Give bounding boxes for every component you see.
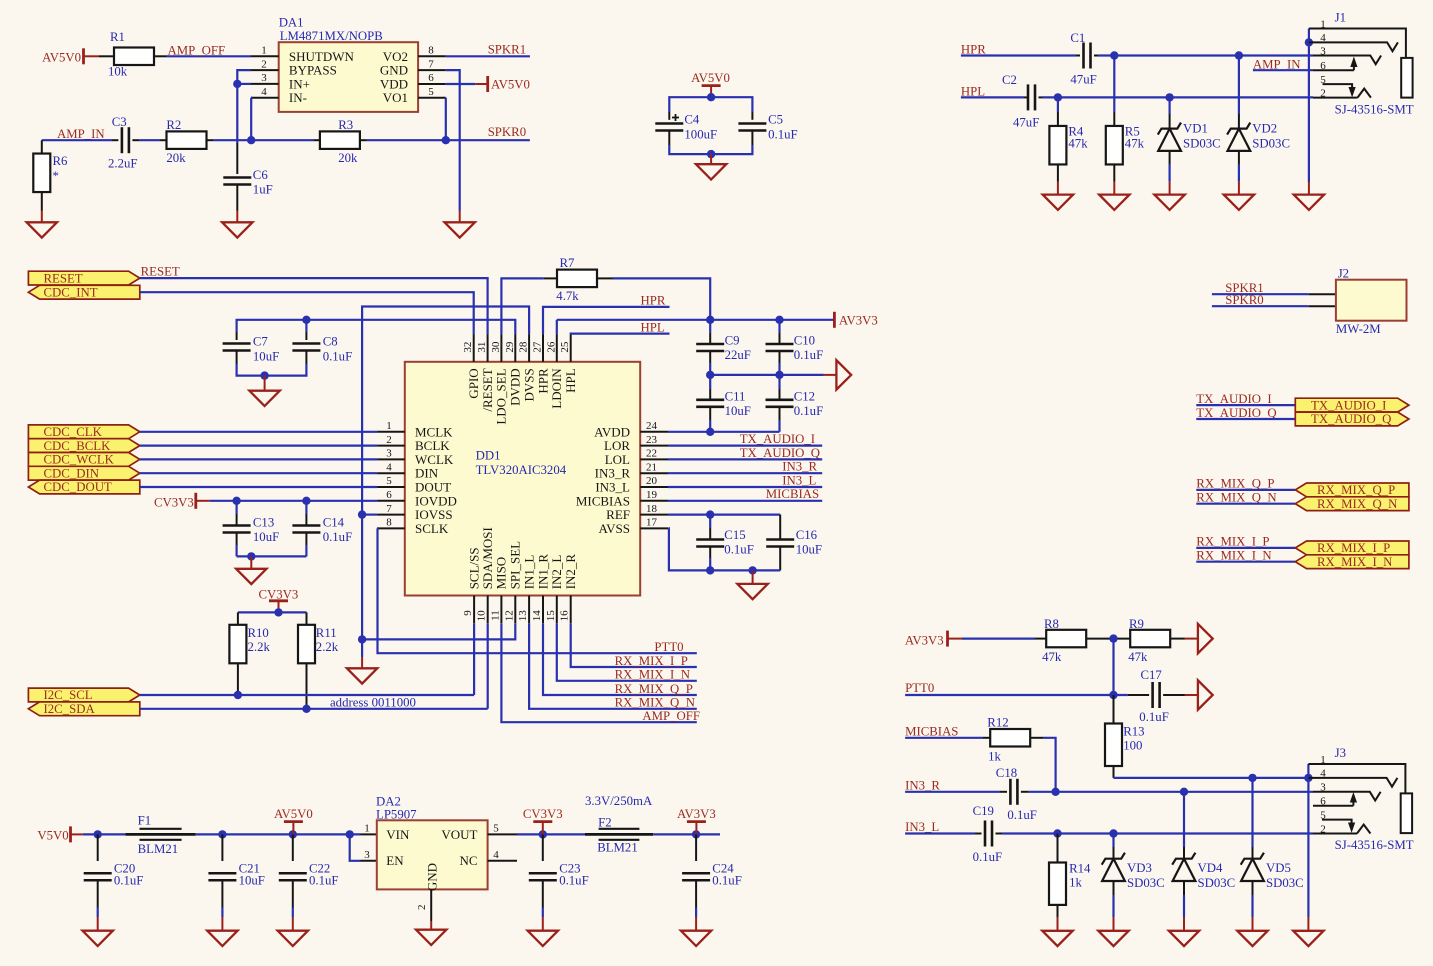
svg-text:WCLK: WCLK bbox=[415, 452, 454, 467]
wire MICBIAS bbox=[668, 500, 822, 502]
wire I2C_SCL bbox=[140, 694, 474, 696]
svg-text:R6: R6 bbox=[53, 154, 69, 168]
svg-text:LP5907: LP5907 bbox=[376, 807, 417, 821]
node bbox=[706, 316, 714, 324]
ground bbox=[347, 668, 377, 683]
port RX_MIX_Q_P bbox=[1295, 483, 1409, 497]
resistor R1 bbox=[114, 48, 154, 66]
svg-text:TX_AUDIO_Q: TX_AUDIO_Q bbox=[1196, 406, 1277, 420]
svg-text:BLM21: BLM21 bbox=[138, 842, 179, 856]
node bbox=[692, 830, 700, 838]
IC DA1 LM4871MX/NOPB bbox=[279, 42, 418, 112]
pin 16 IN2_R bbox=[570, 596, 572, 624]
ferrite bead F1 BLM21 bbox=[125, 833, 195, 836]
wire bbox=[83, 833, 125, 835]
svg-text:4: 4 bbox=[1320, 32, 1326, 44]
wire HPL bbox=[961, 96, 1024, 98]
svg-text:4: 4 bbox=[261, 86, 267, 98]
svg-text:J3: J3 bbox=[1335, 746, 1346, 760]
wire MISO to AMP_OFF bbox=[501, 623, 696, 722]
wire DVSS to ground bus bbox=[362, 307, 529, 658]
ground bbox=[1154, 195, 1184, 210]
wire bbox=[292, 908, 294, 918]
ground bbox=[1169, 931, 1199, 946]
svg-text:AMP_IN: AMP_IN bbox=[57, 127, 105, 141]
svg-text:C1: C1 bbox=[1070, 31, 1085, 45]
svg-text:J1: J1 bbox=[1335, 11, 1346, 25]
port TX_AUDIO_Q bbox=[1295, 412, 1409, 426]
ground bbox=[416, 930, 446, 945]
svg-text:10uF: 10uF bbox=[253, 530, 279, 544]
ferrite bead F2 BLM21 bbox=[585, 833, 653, 836]
wire IN3_L bbox=[668, 486, 822, 488]
svg-text:C8: C8 bbox=[323, 335, 338, 349]
wire bbox=[1002, 832, 1313, 834]
wire R7 to AV3V3 bbox=[613, 278, 710, 319]
node bbox=[94, 830, 102, 838]
pin 19 MICBIAS bbox=[640, 500, 668, 502]
wire bbox=[237, 555, 307, 557]
node R2/R3/IN- junction bbox=[247, 136, 255, 144]
pin 2 GND bbox=[430, 889, 432, 921]
pin 8 bbox=[418, 55, 446, 57]
svg-text:VD1: VD1 bbox=[1183, 122, 1208, 136]
node bbox=[748, 566, 756, 574]
port CDC_WCLK bbox=[28, 453, 139, 467]
svg-text:1: 1 bbox=[386, 420, 392, 432]
svg-text:SD03C: SD03C bbox=[1266, 876, 1304, 890]
svg-text:RX_MIX_Q_P: RX_MIX_Q_P bbox=[615, 682, 693, 696]
svg-text:SD03C: SD03C bbox=[1127, 876, 1165, 890]
svg-text:C17: C17 bbox=[1141, 668, 1163, 682]
node bbox=[260, 371, 268, 379]
svg-text:C4: C4 bbox=[684, 113, 700, 127]
port CDC_DOUT bbox=[28, 480, 139, 494]
svg-text:RX_MIX_Q_N: RX_MIX_Q_N bbox=[1196, 491, 1276, 505]
ground bbox=[207, 931, 237, 946]
svg-text:0.1uF: 0.1uF bbox=[559, 874, 589, 888]
svg-text:4: 4 bbox=[493, 849, 499, 861]
svg-text:1k: 1k bbox=[1069, 876, 1082, 890]
node bbox=[775, 316, 783, 324]
svg-text:R7: R7 bbox=[560, 256, 576, 270]
wire bbox=[1185, 694, 1198, 696]
svg-text:SPKR0: SPKR0 bbox=[1225, 293, 1263, 307]
wire bbox=[221, 908, 223, 918]
pin 4 bbox=[1308, 778, 1397, 787]
node bbox=[1305, 38, 1313, 46]
svg-text:3: 3 bbox=[1320, 45, 1326, 57]
ground bbox=[249, 391, 279, 406]
capacitor C8 bbox=[305, 320, 307, 332]
wire GND pin7 to ground bbox=[446, 70, 460, 210]
svg-text:R8: R8 bbox=[1044, 617, 1059, 631]
svg-text:22uF: 22uF bbox=[725, 348, 751, 362]
pin 6 bbox=[418, 83, 446, 85]
wire PTT0 bbox=[905, 694, 1128, 696]
svg-text:17: 17 bbox=[646, 517, 658, 529]
wire CDC_DIN bbox=[140, 472, 377, 474]
node bbox=[358, 510, 366, 518]
wire bbox=[1196, 561, 1295, 563]
pin 12 SPI_SEL bbox=[514, 596, 516, 624]
wire DVDD rail bbox=[237, 320, 516, 334]
pin 6 IOVDD bbox=[377, 500, 405, 502]
svg-text:AV3V3: AV3V3 bbox=[905, 633, 944, 647]
svg-text:1: 1 bbox=[1320, 18, 1326, 30]
wire AVDD rail bbox=[668, 431, 780, 433]
pin 20 IN3_L bbox=[640, 486, 668, 488]
wire IN- bbox=[250, 98, 252, 141]
capacitor C13 bbox=[236, 501, 238, 514]
wire IOVSS bbox=[362, 513, 377, 515]
wire SPKR0 bbox=[1212, 305, 1309, 307]
svg-text:7: 7 bbox=[386, 503, 392, 515]
wire bbox=[517, 833, 585, 835]
wire bbox=[213, 139, 313, 141]
node bbox=[1304, 774, 1312, 782]
capacitor C16 bbox=[779, 515, 781, 540]
svg-text:DVDD: DVDD bbox=[508, 368, 523, 406]
pin 31 /RESET bbox=[487, 334, 489, 362]
pin 17 AVSS bbox=[640, 527, 668, 529]
svg-text:47k: 47k bbox=[1125, 136, 1145, 150]
pin 10 SDA/MOSI bbox=[487, 596, 489, 624]
wire bbox=[1196, 404, 1295, 406]
svg-text:IN3_L: IN3_L bbox=[595, 480, 630, 495]
wire REF rail bbox=[668, 513, 780, 515]
svg-text:C18: C18 bbox=[996, 766, 1017, 780]
svg-text:CDC_DOUT: CDC_DOUT bbox=[44, 480, 112, 494]
node IN+ junction bbox=[233, 80, 241, 88]
svg-text:1: 1 bbox=[364, 823, 370, 835]
pin 3 WCLK bbox=[377, 458, 405, 460]
svg-text:21: 21 bbox=[646, 461, 657, 473]
svg-text:2: 2 bbox=[416, 905, 428, 911]
svg-text:5: 5 bbox=[1320, 809, 1326, 821]
svg-text:SPI_SEL: SPI_SEL bbox=[508, 541, 523, 589]
wire bbox=[1196, 489, 1295, 491]
svg-text:LM4871MX/NOPB: LM4871MX/NOPB bbox=[280, 29, 383, 43]
svg-text:REF: REF bbox=[606, 507, 630, 522]
svg-text:HPL: HPL bbox=[563, 368, 578, 393]
pin 30 LDO_SEL bbox=[500, 334, 502, 362]
svg-text:2: 2 bbox=[1320, 87, 1326, 99]
svg-text:RX_MIX_Q_P: RX_MIX_Q_P bbox=[1317, 483, 1395, 497]
resistor R8 bbox=[1046, 630, 1086, 648]
svg-text:0.1uF: 0.1uF bbox=[794, 348, 824, 362]
svg-text:C9: C9 bbox=[725, 334, 740, 348]
pin 26 LDOIN bbox=[556, 334, 558, 362]
svg-text:18: 18 bbox=[646, 503, 658, 515]
svg-text:10k: 10k bbox=[108, 65, 128, 79]
svg-text:6: 6 bbox=[386, 489, 392, 501]
wire RESET bbox=[140, 278, 488, 334]
wire bbox=[1196, 418, 1295, 420]
svg-text:MICBIAS: MICBIAS bbox=[905, 725, 958, 739]
wire bbox=[962, 637, 1035, 639]
pin 7 bbox=[418, 69, 446, 71]
capacitor C23 bbox=[542, 834, 544, 861]
wire BYPASS bbox=[237, 70, 251, 84]
svg-text:RX_MIX_Q_N: RX_MIX_Q_N bbox=[615, 696, 695, 710]
connector J2 MW-2M bbox=[1309, 293, 1336, 295]
ground bbox=[1224, 195, 1254, 210]
ground bbox=[681, 931, 711, 946]
svg-text:C15: C15 bbox=[724, 528, 745, 542]
ground bbox=[1042, 931, 1072, 946]
capacitor C24 bbox=[695, 834, 697, 861]
svg-text:SCLK: SCLK bbox=[415, 521, 449, 536]
pin 4 bbox=[251, 97, 279, 99]
svg-text:R11: R11 bbox=[316, 626, 337, 640]
wire bbox=[542, 908, 544, 918]
svg-text:NC: NC bbox=[459, 853, 477, 868]
pin 1 bbox=[1309, 29, 1406, 58]
capacitor C19 bbox=[984, 821, 987, 847]
svg-text:IN+: IN+ bbox=[289, 76, 310, 91]
svg-text:TX_AUDIO_I: TX_AUDIO_I bbox=[1196, 392, 1271, 406]
diode VD3 SD03C bbox=[1112, 834, 1114, 848]
svg-text:I2C_SCL: I2C_SCL bbox=[44, 688, 93, 702]
svg-text:47uF: 47uF bbox=[1013, 116, 1039, 130]
ground bbox=[278, 931, 308, 946]
pin 1 bbox=[1308, 764, 1405, 793]
svg-text:RX_MIX_I_P: RX_MIX_I_P bbox=[615, 654, 688, 668]
svg-text:6: 6 bbox=[428, 72, 434, 84]
port CDC_INT bbox=[28, 285, 139, 299]
wire bbox=[1308, 182, 1310, 195]
svg-text:BLM21: BLM21 bbox=[597, 840, 638, 854]
wire HPR bbox=[543, 307, 670, 334]
svg-text:AV3V3: AV3V3 bbox=[839, 313, 878, 327]
svg-text:IN3_R: IN3_R bbox=[782, 460, 817, 474]
wire bbox=[1112, 639, 1114, 695]
svg-text:3: 3 bbox=[261, 72, 267, 84]
pin 1 bbox=[251, 55, 279, 57]
svg-text:AV5V0: AV5V0 bbox=[491, 78, 530, 92]
pin 14 IN1_R bbox=[542, 596, 544, 624]
svg-text:IN3_R: IN3_R bbox=[595, 466, 631, 481]
wire AMP_IN bbox=[42, 139, 112, 141]
capacitor C7 bbox=[236, 332, 238, 340]
wire bbox=[1114, 777, 1309, 779]
node bbox=[1051, 788, 1059, 796]
capacitor C15 bbox=[709, 515, 711, 528]
wire bbox=[1113, 182, 1115, 195]
svg-text:0.1uF: 0.1uF bbox=[768, 128, 798, 142]
wire AMP_IN bbox=[1253, 69, 1313, 71]
wire SPKR0 bbox=[446, 139, 530, 141]
svg-text:MICBIAS: MICBIAS bbox=[576, 493, 630, 508]
resistor R13 bbox=[1113, 695, 1115, 724]
wire ground bus bbox=[1307, 764, 1309, 917]
resistor R9 bbox=[1130, 630, 1170, 648]
svg-text:5: 5 bbox=[386, 475, 392, 487]
svg-text:V5V0: V5V0 bbox=[37, 829, 68, 843]
svg-text:6: 6 bbox=[1320, 60, 1326, 72]
wire bbox=[1196, 503, 1295, 505]
pin 4 DIN bbox=[377, 472, 405, 474]
svg-text:MICBIAS: MICBIAS bbox=[766, 487, 819, 501]
svg-text:CDC_CLK: CDC_CLK bbox=[44, 425, 103, 439]
pin 18 REF bbox=[640, 514, 668, 516]
svg-text:30: 30 bbox=[490, 341, 502, 353]
wire bbox=[1031, 737, 1044, 739]
capacitor C1 bbox=[1082, 43, 1085, 69]
capacitor C21 bbox=[221, 834, 223, 861]
wire bbox=[367, 139, 446, 141]
svg-text:1uF: 1uF bbox=[253, 183, 273, 197]
node bbox=[1110, 51, 1118, 59]
wire CDC_WCLK bbox=[140, 458, 377, 460]
svg-text:47k: 47k bbox=[1128, 650, 1148, 664]
svg-text:0.1uF: 0.1uF bbox=[973, 850, 1003, 864]
svg-text:3: 3 bbox=[364, 849, 370, 861]
svg-text:R9: R9 bbox=[1129, 617, 1144, 631]
node bbox=[1054, 93, 1062, 101]
diode VD4 SD03C bbox=[1183, 792, 1185, 847]
svg-text:20: 20 bbox=[646, 475, 658, 487]
wire LDO_SEL to R7 bbox=[501, 278, 544, 334]
svg-text:AV5V0: AV5V0 bbox=[691, 71, 730, 85]
wire ground bus bbox=[1308, 29, 1310, 183]
svg-text:HPR: HPR bbox=[641, 294, 666, 308]
svg-text:PTT0: PTT0 bbox=[654, 640, 683, 654]
wire bbox=[1087, 638, 1131, 640]
ground bbox=[1293, 931, 1323, 946]
node bbox=[1165, 93, 1173, 101]
svg-text:2: 2 bbox=[261, 58, 267, 70]
svg-text:MCLK: MCLK bbox=[415, 424, 453, 439]
pin 6 bbox=[1313, 805, 1353, 807]
svg-text:0.1uF: 0.1uF bbox=[712, 874, 742, 888]
svg-text:C5: C5 bbox=[768, 113, 783, 127]
svg-text:2: 2 bbox=[1320, 823, 1326, 835]
svg-text:13: 13 bbox=[517, 610, 529, 622]
svg-text:RX_MIX_Q_N: RX_MIX_Q_N bbox=[1317, 497, 1397, 511]
ground bbox=[236, 569, 266, 584]
wire bbox=[1196, 547, 1295, 549]
wire bbox=[1238, 164, 1240, 182]
svg-text:1k: 1k bbox=[988, 750, 1001, 764]
resistor R10 bbox=[237, 612, 239, 624]
svg-text:C19: C19 bbox=[973, 804, 994, 818]
port I2C_SCL bbox=[28, 688, 139, 702]
port RX_MIX_I_N bbox=[1295, 555, 1409, 569]
svg-text:J2: J2 bbox=[1338, 267, 1349, 281]
wire CDC_DOUT bbox=[140, 486, 377, 488]
resistor R11 bbox=[306, 612, 308, 624]
capacitor C2 bbox=[1027, 84, 1030, 110]
pin 29 DVDD bbox=[514, 334, 516, 362]
svg-text:IN2_L: IN2_L bbox=[549, 555, 564, 590]
diode VD5 SD03C bbox=[1251, 778, 1253, 847]
ground bbox=[83, 931, 113, 946]
svg-text:AVSS: AVSS bbox=[598, 521, 630, 536]
svg-text:VO2: VO2 bbox=[383, 49, 408, 64]
svg-text:CDC_WCLK: CDC_WCLK bbox=[44, 453, 115, 467]
svg-text:4.7k: 4.7k bbox=[556, 289, 579, 303]
svg-text:AMP_OFF: AMP_OFF bbox=[642, 709, 700, 723]
pin 32 GPIO bbox=[473, 334, 475, 362]
svg-text:IN1_R: IN1_R bbox=[535, 554, 550, 590]
svg-text:20k: 20k bbox=[166, 151, 186, 165]
svg-text:1: 1 bbox=[1320, 754, 1326, 766]
svg-text:5: 5 bbox=[493, 823, 499, 835]
pin 1 MCLK bbox=[377, 431, 405, 433]
ground bbox=[445, 222, 475, 237]
svg-text:VO1: VO1 bbox=[383, 90, 408, 105]
port TX_AUDIO_I bbox=[1295, 398, 1409, 412]
svg-text:SPKR1: SPKR1 bbox=[488, 43, 526, 57]
node bbox=[1109, 634, 1117, 642]
svg-text:26: 26 bbox=[545, 341, 557, 353]
svg-text:SHUTDWN: SHUTDWN bbox=[289, 49, 355, 64]
svg-text:TX_AUDIO_Q: TX_AUDIO_Q bbox=[1311, 412, 1392, 426]
svg-text:3: 3 bbox=[1320, 782, 1326, 794]
node bbox=[706, 510, 714, 518]
svg-text:0.1uF: 0.1uF bbox=[794, 404, 824, 418]
svg-text:R3: R3 bbox=[338, 118, 353, 132]
pin 2 bbox=[251, 69, 279, 71]
svg-text:0.1uF: 0.1uF bbox=[323, 530, 353, 544]
wire mid rail bbox=[710, 374, 824, 376]
svg-text:0.1uF: 0.1uF bbox=[309, 874, 339, 888]
wire EN bbox=[350, 834, 361, 860]
svg-text:RX_MIX_I_P: RX_MIX_I_P bbox=[1317, 541, 1390, 555]
svg-text:IN3_L: IN3_L bbox=[782, 473, 816, 487]
svg-text:32: 32 bbox=[462, 342, 474, 353]
svg-text:24: 24 bbox=[646, 420, 658, 432]
svg-text:AV5V0: AV5V0 bbox=[42, 51, 81, 65]
svg-text:27: 27 bbox=[532, 341, 544, 353]
wire bbox=[97, 908, 99, 918]
svg-text:RX_MIX_I_N: RX_MIX_I_N bbox=[615, 668, 690, 682]
ground bbox=[222, 222, 252, 237]
resistor R12 bbox=[990, 729, 1030, 747]
svg-text:VIN: VIN bbox=[386, 827, 410, 842]
svg-text:I2C_SDA: I2C_SDA bbox=[44, 702, 96, 716]
svg-text:20k: 20k bbox=[338, 151, 358, 165]
svg-text:7: 7 bbox=[428, 58, 434, 70]
wire bbox=[1098, 54, 1313, 56]
pin 3 bbox=[251, 83, 279, 85]
svg-text:GND: GND bbox=[380, 63, 408, 78]
wire AMP_OFF bbox=[167, 55, 252, 57]
regulator DA2 LP5907 bbox=[361, 833, 377, 835]
node bbox=[289, 830, 297, 838]
svg-text:VD2: VD2 bbox=[1252, 122, 1277, 136]
svg-text:TX_AUDIO_I: TX_AUDIO_I bbox=[740, 432, 815, 446]
wire SPI_SEL bbox=[362, 623, 515, 639]
svg-text:DA1: DA1 bbox=[279, 16, 304, 30]
capacitor C17 bbox=[1128, 694, 1149, 696]
svg-text:C16: C16 bbox=[796, 528, 818, 542]
resistor R14 bbox=[1057, 834, 1059, 863]
svg-text:LDO_SEL: LDO_SEL bbox=[494, 368, 509, 424]
wire bbox=[41, 211, 43, 223]
svg-text:1: 1 bbox=[261, 45, 267, 57]
svg-text:CDC_BCLK: CDC_BCLK bbox=[44, 439, 112, 453]
node bbox=[247, 552, 255, 560]
svg-text:31: 31 bbox=[476, 342, 488, 353]
pin 2 BCLK bbox=[377, 445, 405, 447]
capacitor C9 bbox=[709, 320, 711, 333]
capacitor C3 bbox=[121, 127, 124, 153]
node bbox=[358, 635, 366, 643]
svg-text:28: 28 bbox=[518, 341, 530, 353]
